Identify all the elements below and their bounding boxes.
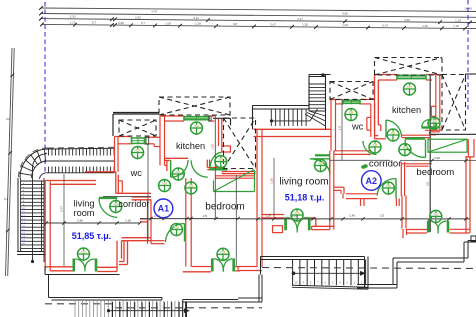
A1 south wall step up: [116, 241, 118, 272]
A2 step walls LR-east: [334, 186, 344, 188]
svg-text:1,5: 1,5: [338, 126, 342, 131]
dashed eave line bottom-right: [262, 268, 476, 269]
dim vertical through A2 wc: [341, 99, 343, 160]
stair winder fan: [309, 110, 326, 112]
svg-text:51,85 τ.μ.: 51,85 τ.μ.: [72, 231, 112, 241]
lamp A2 corridor door: [382, 182, 394, 195]
A2 corner shelf (green quarter disc): [310, 159, 330, 175]
A1 corridor east walls: [147, 199, 149, 244]
A1 wc/kitchen north wall with window: [115, 136, 132, 138]
A1 hall-bedroom door arc D5b: [191, 160, 208, 177]
A1 kitchen west wall: [159, 116, 161, 141]
A2 living room north wall: [254, 128, 332, 130]
A2 corridor south wall: [346, 193, 377, 195]
window W-A1-kitchen: [184, 116, 209, 118]
A1 south wall east of F2: [235, 266, 240, 268]
A1 kitchen west wall lower + door jamb: [159, 141, 161, 165]
svg-text:0,74: 0,74: [382, 23, 388, 27]
lamp A2 wc: [345, 109, 357, 122]
A1 bedroom south wall: [183, 271, 211, 273]
dim vertical through A1 living room: [63, 174, 65, 266]
dim horizontal A1 living room: [46, 222, 140, 224]
window W-A2-kitchen: [397, 74, 426, 76]
A2 terrace outline right: [357, 284, 397, 286]
dashed eave line bottom-left: [45, 303, 115, 305]
svg-text:3,11: 3,11: [193, 16, 199, 20]
A2 wc north wall with window: [331, 99, 343, 101]
svg-text:4,1: 4,1: [4, 197, 9, 201]
svg-text:1,10: 1,10: [265, 213, 271, 217]
svg-text:1,30: 1,30: [422, 24, 428, 28]
svg-text:0,8: 0,8: [233, 22, 238, 26]
dim horizontal A1 corridor: [103, 195, 151, 197]
mid terrace north edge (double): [253, 105, 310, 107]
mid terrace steps (horizontal flight): [270, 109, 272, 126]
A2 wall stub south of corridor: [360, 199, 362, 206]
A2 terrace north edge: [261, 256, 358, 258]
party wall bottom junction: [238, 266, 257, 268]
svg-text:1,45: 1,45: [349, 213, 355, 217]
A2 south-east step wall: [312, 225, 334, 227]
green sill left of wc: [315, 154, 330, 156]
building top-left black outline: [113, 113, 159, 115]
wall under beam box XB3: [222, 171, 256, 173]
A1 kitchen door arc D1: [170, 160, 172, 177]
A1 kitchen north wall with window: [160, 115, 184, 117]
beam box XB3 right of A1 kitchen: [224, 118, 256, 169]
svg-text:bedroom: bedroom: [416, 167, 454, 178]
svg-text:1,10: 1,10: [70, 20, 76, 24]
bottom stair A1 treads: [112, 302, 114, 317]
A1 kitchen east wall: [218, 119, 220, 146]
lamp A1 french door: [78, 248, 90, 261]
svg-text:1,50: 1,50: [270, 178, 274, 184]
A2 bedroom east wall: [465, 156, 467, 233]
svg-text:2,96: 2,96: [434, 156, 440, 160]
svg-text:1,19: 1,19: [455, 18, 461, 22]
external stair curved corner: [20, 149, 48, 178]
A2 kitchen south wall: [402, 134, 430, 136]
lamp A1 kitchen-door: [215, 156, 227, 169]
green ramp right of A2 kitchen: [428, 139, 467, 152]
svg-text:2,47: 2,47: [270, 22, 276, 26]
svg-text:2,5: 2,5: [380, 213, 385, 217]
A2 kitchen east wall: [435, 75, 437, 131]
walk line mid stairs: [270, 119, 273, 122]
black ledge over wc A1: [113, 112, 160, 114]
svg-text:corridor: corridor: [369, 158, 402, 169]
svg-text:1,26: 1,26: [195, 22, 201, 26]
dim vertical through A2 bedroom: [429, 75, 431, 232]
A2 bedroom south-west corner stub: [402, 229, 404, 238]
A2 corridor-bedroom wall: [400, 162, 402, 196]
top dimension line L0: [41, 8, 476, 12]
A2 bedroom north wall: [402, 163, 432, 165]
lamp A2 bedroom french door: [430, 210, 442, 223]
A1 bedroom north wall: [215, 175, 255, 177]
solid line under XB6: [431, 133, 476, 135]
A1/A2 terrace divider: [258, 275, 260, 303]
green leaf mark near A2 corridor: [361, 163, 369, 169]
svg-text:2,77: 2,77: [60, 206, 64, 212]
window W-A2-wc: [343, 99, 360, 101]
A1 living room door sill (green): [99, 197, 117, 199]
svg-text:A1: A1: [158, 204, 170, 214]
lamp A1 kitchen: [191, 122, 203, 135]
svg-text:2,92: 2,92: [135, 16, 141, 20]
svg-text:0,7: 0,7: [92, 21, 97, 25]
A2 wc south wall: [334, 150, 371, 152]
A2 kitchen door arc D7: [385, 120, 387, 138]
beam box XB2 left of A1 kitchen: [119, 120, 156, 136]
A2 east wing wall jog: [466, 156, 474, 158]
A1 door kitchen-bedroom arc D2: [210, 168, 228, 170]
window W-A1-wc: [132, 137, 145, 139]
svg-text:1,18: 1,18: [125, 219, 131, 223]
A1 south wall east of F1: [97, 266, 117, 268]
A1 french door F1: [73, 259, 76, 272]
A2 kitchen west wall: [374, 75, 376, 139]
svg-text:kitchen: kitchen: [176, 141, 205, 151]
svg-text:4,76: 4,76: [151, 10, 157, 14]
A1 living room door arc D3: [99, 198, 117, 217]
svg-text:1,50: 1,50: [211, 144, 215, 150]
A1 south wall step extra leg: [123, 241, 125, 262]
A2 south wall east of F3: [311, 217, 316, 219]
A1 corridor step wall: [140, 218, 148, 220]
dim horizontal A2: [240, 218, 470, 220]
lamp A2 corner: [315, 160, 327, 173]
dimension end ticks: [39, 6, 43, 10]
A1 wardrobe (green): [214, 191, 255, 193]
beam box XB1 above A1 kitchen: [159, 97, 230, 115]
lamp A2 hall-1: [387, 129, 399, 142]
long bottom stair A2: [292, 260, 294, 286]
A2 bedroom west wall: [401, 196, 403, 229]
A2 south wall east of F4: [450, 228, 470, 230]
svg-text:wc: wc: [130, 168, 143, 178]
A2 kitchen door sill (green): [405, 137, 425, 139]
dim horizontal A2 bedroom top: [400, 160, 476, 162]
A2 living room east wall: [329, 151, 331, 230]
A2 kitchen north wall with window: [375, 74, 398, 76]
dim vertical through A1 kitchen wall: [214, 115, 216, 219]
svg-text:living: living: [74, 198, 95, 208]
dim vertical through A1 bedroom: [235, 175, 237, 266]
wall right of ramp: [467, 139, 469, 157]
A2 wc west wall: [330, 100, 332, 151]
A2 bedroom french door F4: [427, 221, 430, 233]
svg-text:3,90: 3,90: [404, 18, 410, 22]
A1 kitchen east wall door pocket: [222, 146, 231, 152]
top dimension line L1: [41, 14, 476, 18]
external stair top flight band: [48, 147, 115, 150]
svg-text:0,80: 0,80: [118, 21, 124, 25]
badge A2: [362, 171, 382, 191]
svg-text:1,00: 1,00: [342, 23, 348, 27]
lamp A1 hall-2: [172, 168, 184, 181]
A2 door pocket below wall: [273, 226, 283, 233]
svg-text:2,5: 2,5: [203, 214, 208, 218]
lamp A1 wc: [132, 147, 144, 160]
A1 vestibule walls: [115, 172, 117, 194]
svg-text:51,18 τ.μ.: 51,18 τ.μ.: [285, 192, 325, 202]
A1 corridor south wall: [132, 196, 151, 198]
external stair left flight: [17, 178, 19, 251]
svg-text:kitchen: kitchen: [392, 105, 421, 115]
lamp A1 hall-3: [185, 182, 197, 195]
black ledge right of kitchen A1: [213, 117, 231, 119]
svg-text:A2: A2: [366, 176, 378, 186]
A1 wall toward corridor: [122, 237, 152, 239]
lamp A1 living room door: [110, 201, 122, 214]
A2 kitchen half-disc shelf: [422, 126, 437, 128]
svg-text:corridor: corridor: [118, 199, 149, 209]
black outline top-right corner: [466, 73, 476, 75]
lamp A1 bedroom french door: [217, 248, 229, 261]
A1 bedroom west wall: [185, 178, 187, 267]
svg-text:1,30: 1,30: [302, 23, 308, 27]
A1 wc west wall: [114, 137, 116, 172]
svg-text:wc: wc: [351, 121, 364, 131]
A1 living room left wall: [44, 181, 46, 271]
A1 kitchen south wall: [165, 157, 189, 159]
dim vertical x148: [147, 144, 149, 241]
dim vertical through A2 living room: [273, 158, 275, 217]
beam box XB4 above A2 wc: [330, 82, 373, 100]
A1 bedroom french door F2: [211, 258, 214, 271]
svg-text:room: room: [74, 208, 95, 218]
blue dashed boundary line right: [467, 0, 469, 112]
A2 french door F3: [284, 217, 287, 230]
top dimension line L2: [41, 19, 476, 23]
svg-text:2,96: 2,96: [77, 219, 83, 223]
lamp A2 hall-2: [369, 141, 381, 154]
A1 door corridor arc D4: [184, 224, 186, 242]
lamp A1 south door: [171, 224, 183, 237]
red edge under stair band: [85, 171, 116, 173]
A2 wc east wall: [370, 104, 372, 137]
party wall A1/A2: [256, 129, 258, 267]
dim horizontal under A2 wc: [330, 159, 390, 161]
A2 bedroom south wall: [407, 229, 428, 231]
lamp A2 hall-3: [399, 144, 411, 157]
A2 corridor door arc D9: [395, 179, 397, 199]
terrace below A1 bedroom: [161, 298, 163, 300]
A1 terrace outline: [44, 266, 46, 275]
lamp A1 hall-1: [159, 180, 171, 193]
A1 living room top wall: [45, 180, 96, 182]
small box top-right of terrace: [471, 236, 476, 241]
svg-text:1,19: 1,19: [453, 24, 459, 28]
svg-text:2,47: 2,47: [297, 17, 303, 21]
bottom stair A1 light risers: [74, 301, 76, 317]
dim horizontal A1 corridor-bedroom: [140, 218, 240, 220]
svg-text:3,2: 3,2: [6, 117, 11, 121]
A2 door jamb wall below: [395, 198, 397, 206]
beam box XB6 right of A2 kitchen: [442, 75, 466, 131]
A2 living room south wall: [262, 214, 284, 216]
svg-text:bedroom: bedroom: [205, 202, 244, 213]
svg-text:9,60: 9,60: [342, 12, 348, 16]
svg-text:0,7: 0,7: [141, 21, 146, 25]
svg-text:1,10: 1,10: [70, 15, 76, 19]
stairwell between units: [308, 75, 310, 112]
lamp A2 kitchen-door: [428, 117, 440, 130]
svg-text:1,06: 1,06: [165, 21, 171, 25]
lamp A2 kitchen: [404, 83, 416, 96]
A2 door kitchen-hall arc D8: [425, 140, 427, 158]
svg-text:living room: living room: [279, 177, 328, 188]
top dimension line L3: [42, 24, 476, 28]
svg-text:3,5: 3,5: [426, 182, 430, 187]
A2 wc door arc D6: [363, 141, 377, 155]
badge A1: [154, 199, 173, 218]
blue dashed boundary line left: [44, 2, 46, 172]
A2 kitchen west wall bottom: [375, 138, 386, 140]
left dimension line (double, slanted): [6, 48, 13, 276]
beam box XB5 above A2 kitchen: [375, 58, 443, 76]
lamp A2 french door: [291, 209, 303, 222]
A1 living room south wall: [45, 266, 72, 268]
A1 south wall under corridor: [151, 240, 165, 242]
